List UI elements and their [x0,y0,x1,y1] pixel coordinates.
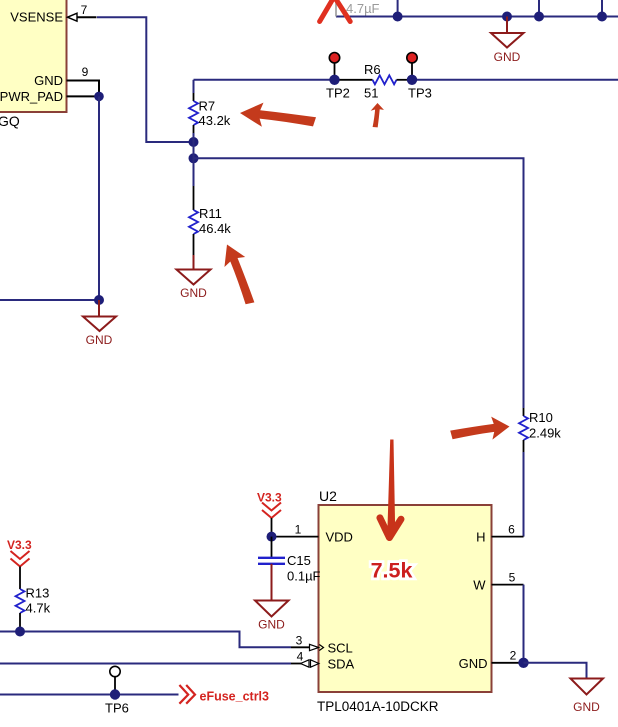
svg-text:9: 9 [82,65,89,79]
resistor R7 [189,80,231,142]
IC U1 body (top-left, partially visible) [0,0,67,112]
svg-text:W: W [473,578,486,593]
power symbol V3.3 (U2) [257,491,282,537]
svg-text:R13: R13 [26,586,50,601]
deleted capacitor remnant wire (grey) [335,0,337,17]
wire VSENSE net [97,17,194,142]
svg-text:6: 6 [508,523,515,537]
pin 3 stub [291,646,310,648]
ground symbol under C15 [255,564,289,632]
pin 4 bidirectional port symbol [301,660,319,667]
pin 7 stub [77,16,97,18]
pin 4 stub [291,663,303,665]
svg-text:GND: GND [494,50,521,64]
wire PWR_PAD net down [98,96,100,300]
off-page connector eFuse_ctrl3 [179,685,269,704]
svg-text:7: 7 [81,3,88,17]
svg-text:TP2: TP2 [326,86,350,101]
wire between junctions [193,142,195,158]
svg-text:5: 5 [509,571,516,585]
svg-text:SDA: SDA [328,657,355,672]
big annotation arrow into U2 [380,440,401,538]
ground symbol top [491,17,524,65]
svg-text:4.7µF: 4.7µF [346,1,380,16]
svg-text:GND: GND [86,333,113,347]
svg-text:1: 1 [295,523,302,537]
svg-text:V3.3: V3.3 [257,491,282,505]
pin 1 stub VDD [272,536,319,538]
stub up at x=539 [538,0,540,17]
svg-text:2: 2 [510,649,517,663]
svg-text:GND: GND [459,656,488,671]
IC U2 body [319,505,492,692]
resistor R6 [335,62,413,101]
svg-text:46.4k: 46.4k [199,221,231,236]
svg-text:GND: GND [180,286,207,300]
svg-text:eFuse_ctrl3: eFuse_ctrl3 [200,690,270,704]
red X deletion mark [320,0,351,22]
ground symbol bottom-right [571,679,604,715]
svg-text:GND: GND [258,618,285,632]
resistor R13 [7,538,51,632]
wire TP row y=79.8 [194,79,335,81]
ground symbol under R11 [177,255,211,300]
junction at (193.5,158.3) [189,153,199,163]
stub up at x=397.6 [397,0,399,17]
svg-text:C15: C15 [287,553,311,568]
annotation arrow at R10 [450,417,509,440]
annotation arrow at R7 [240,103,316,127]
junction pin2 [518,658,528,668]
junction TP6 [110,689,120,699]
svg-text:SCL: SCL [328,641,353,656]
ground symbol left [83,300,116,347]
svg-text:2.49k: 2.49k [529,426,561,441]
resistor R11 [189,158,231,255]
test point TP6 [105,666,129,715]
svg-text:VDD: VDD [326,530,353,545]
svg-text:R10: R10 [529,410,553,425]
svg-text:PWR_PAD: PWR_PAD [0,89,63,104]
svg-text:GQ: GQ [0,113,20,129]
wire eFuse_ctrl3 net [0,694,179,696]
junction R13 [15,627,25,637]
top wire y=16.5 [336,16,618,18]
junction TP2 [329,75,339,85]
annotation arrow at R11 [216,240,267,307]
svg-text:4: 4 [297,650,304,664]
stub up at x=602 [601,0,603,17]
pin 6 stub H [492,536,524,538]
svg-text:43.2k: 43.2k [199,113,231,128]
capacitor C15 [258,537,321,584]
wire W net down [523,585,525,663]
svg-text:GND: GND [34,73,63,88]
pin 9 GND stub [67,81,100,97]
svg-text:U2: U2 [319,488,337,504]
wire SCL net [0,632,291,648]
wire SDA net [0,663,291,665]
svg-text:R11: R11 [199,206,222,221]
junction TP3 [407,75,417,85]
svg-text:R7: R7 [199,99,216,114]
wire GND net right [524,663,587,678]
svg-text:4.7k: 4.7k [26,601,51,616]
wire right from (193.5,158.3) to corner (523.5,158.3) [194,158,524,408]
svg-text:V3.3: V3.3 [7,538,32,552]
svg-text:TPL0401A-10DCKR: TPL0401A-10DCKR [317,699,439,714]
junction at (193.5,142) [189,137,199,147]
junction PWR_PAD [94,92,104,102]
svg-text:H: H [476,530,485,545]
svg-text:VSENSE: VSENSE [10,10,63,25]
pin 7 input arrow [68,13,78,21]
annotation arrow at R6 [370,102,386,128]
junction V3.3/C15 [267,532,277,542]
svg-text:TP6: TP6 [105,701,129,716]
svg-text:GND: GND [573,700,600,714]
pin PWR_PAD stub [67,95,100,97]
svg-text:R6: R6 [364,62,381,77]
test point TP2 [326,53,350,101]
test point TP3 [407,53,432,101]
pin 2 stub GND [492,662,524,664]
junction dots on top wire [393,12,403,22]
svg-text:7.5k: 7.5k [371,559,413,583]
pin 3 input port symbol [310,644,319,650]
svg-text:3: 3 [296,634,303,648]
svg-text:0.1µF: 0.1µF [287,569,321,584]
pin 5 stub W [492,584,524,586]
junction at (99,300) [94,295,104,305]
svg-text:51: 51 [364,86,378,101]
wire left at y=300 [0,299,99,301]
svg-text:TP3: TP3 [408,86,432,101]
resistor R10 [519,408,561,537]
